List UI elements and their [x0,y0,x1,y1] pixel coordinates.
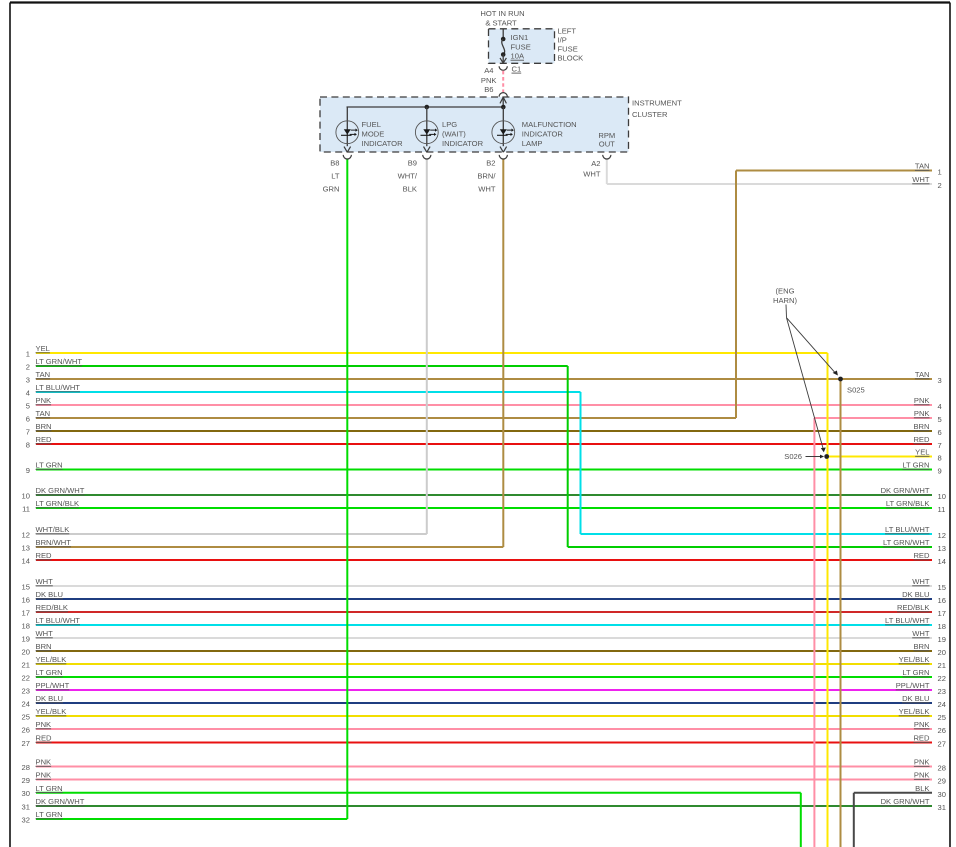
svg-text:FUSE: FUSE [511,42,531,51]
svg-text:30: 30 [938,790,946,799]
svg-text:9: 9 [938,467,942,476]
svg-text:(ENG: (ENG [776,286,795,295]
svg-text:S026: S026 [784,452,802,461]
svg-text:YEL/BLK: YEL/BLK [899,655,930,664]
svg-text:PNK: PNK [914,771,930,780]
svg-text:26: 26 [22,725,30,734]
svg-text:3: 3 [938,376,942,385]
svg-text:LT BLU/WHT: LT BLU/WHT [36,383,81,392]
svg-text:28: 28 [938,764,946,773]
svg-text:10: 10 [938,492,946,501]
svg-text:YEL/BLK: YEL/BLK [36,655,67,664]
svg-text:13: 13 [22,543,30,552]
svg-text:10A: 10A [511,52,525,61]
svg-text:RED: RED [36,435,53,444]
svg-text:LT GRN/WHT: LT GRN/WHT [36,357,83,366]
svg-text:DK BLU: DK BLU [36,590,63,599]
svg-text:RED: RED [913,435,930,444]
svg-text:21: 21 [22,660,30,669]
svg-text:20: 20 [938,648,946,657]
svg-text:BRN: BRN [36,642,52,651]
svg-text:5: 5 [938,415,942,424]
svg-text:19: 19 [22,634,30,643]
svg-text:32: 32 [22,815,30,824]
svg-text:12: 12 [938,531,946,540]
svg-text:LT GRN: LT GRN [902,461,929,470]
svg-text:INDICATOR: INDICATOR [362,139,404,148]
svg-text:PNK: PNK [36,720,52,729]
svg-text:LT GRN: LT GRN [36,668,63,677]
svg-text:PNK: PNK [36,396,52,405]
svg-text:WHT/BLK: WHT/BLK [36,525,70,534]
svg-text:LT BLU/WHT: LT BLU/WHT [885,525,930,534]
svg-text:CLUSTER: CLUSTER [632,110,668,119]
svg-text:WHT: WHT [36,577,54,586]
svg-text:7: 7 [26,427,30,436]
svg-text:LAMP: LAMP [522,139,543,148]
svg-text:HOT IN RUN: HOT IN RUN [480,9,524,18]
svg-text:& START: & START [485,19,517,28]
svg-text:TAN: TAN [915,370,930,379]
svg-text:RED: RED [913,734,930,743]
svg-text:18: 18 [22,621,30,630]
svg-text:8: 8 [26,440,30,449]
svg-text:BRN: BRN [913,422,929,431]
svg-text:TAN: TAN [915,162,930,171]
svg-text:PPL/WHT: PPL/WHT [896,681,930,690]
svg-text:14: 14 [938,557,946,566]
svg-text:16: 16 [938,596,946,605]
svg-text:B6: B6 [484,85,493,94]
svg-text:27: 27 [938,740,946,749]
svg-text:INSTRUMENT: INSTRUMENT [632,99,682,108]
svg-text:BRN/WHT: BRN/WHT [36,538,72,547]
svg-text:C1: C1 [512,65,522,74]
svg-text:B8: B8 [330,158,339,167]
svg-text:DK GRN/WHT: DK GRN/WHT [881,797,930,806]
svg-text:4: 4 [938,402,942,411]
svg-text:RED/BLK: RED/BLK [897,603,930,612]
svg-text:(WAIT): (WAIT) [442,129,466,138]
svg-text:17: 17 [22,608,30,617]
svg-text:WHT: WHT [478,185,496,194]
svg-text:LEFT: LEFT [558,27,577,36]
svg-text:21: 21 [938,661,946,670]
svg-text:25: 25 [938,713,946,722]
svg-text:YEL/BLK: YEL/BLK [899,707,930,716]
svg-text:19: 19 [938,635,946,644]
svg-text:11: 11 [22,504,30,513]
svg-text:22: 22 [22,673,30,682]
svg-text:BLK: BLK [915,784,929,793]
svg-text:29: 29 [938,777,946,786]
svg-text:INDICATOR: INDICATOR [522,129,564,138]
svg-text:25: 25 [22,712,30,721]
svg-text:28: 28 [22,763,30,772]
svg-text:20: 20 [22,647,30,656]
svg-text:A4: A4 [484,66,493,75]
svg-text:LT GRN: LT GRN [902,668,929,677]
svg-text:12: 12 [22,530,30,539]
svg-text:BLK: BLK [403,185,417,194]
svg-text:7: 7 [938,441,942,450]
svg-text:PPL/WHT: PPL/WHT [36,681,70,690]
svg-text:2: 2 [938,181,942,190]
svg-text:LT: LT [331,172,340,181]
svg-text:24: 24 [938,700,946,709]
svg-text:LT BLU/WHT: LT BLU/WHT [36,616,81,625]
svg-text:11: 11 [938,505,946,514]
svg-text:DK BLU: DK BLU [902,694,929,703]
svg-text:PNK: PNK [36,758,52,767]
svg-text:YEL: YEL [915,448,929,457]
svg-text:BLOCK: BLOCK [558,54,584,63]
svg-text:8: 8 [938,454,942,463]
svg-text:26: 26 [938,726,946,735]
svg-text:6: 6 [26,414,30,423]
svg-text:14: 14 [22,556,30,565]
svg-text:BRN/: BRN/ [477,172,496,181]
svg-text:PNK: PNK [914,396,930,405]
svg-text:RED/BLK: RED/BLK [36,603,69,612]
svg-text:17: 17 [938,609,946,618]
svg-text:23: 23 [938,687,946,696]
svg-text:DK GRN/WHT: DK GRN/WHT [36,797,85,806]
svg-text:PNK: PNK [914,758,930,767]
svg-text:LT GRN/BLK: LT GRN/BLK [886,499,930,508]
svg-text:BRN: BRN [913,642,929,651]
svg-text:15: 15 [938,583,946,592]
svg-text:3: 3 [26,375,30,384]
svg-text:DK GRN/WHT: DK GRN/WHT [881,486,930,495]
svg-text:5: 5 [26,401,30,410]
svg-text:15: 15 [22,582,30,591]
svg-text:GRN: GRN [323,185,340,194]
svg-text:1: 1 [26,349,30,358]
svg-text:B9: B9 [408,158,417,167]
svg-text:B2: B2 [486,158,495,167]
svg-text:1: 1 [938,168,942,177]
svg-text:RED: RED [36,551,53,560]
svg-text:10: 10 [22,491,30,500]
svg-text:HARN): HARN) [773,296,798,305]
svg-text:RED: RED [36,734,53,743]
svg-text:29: 29 [22,776,30,785]
svg-text:LPG: LPG [442,120,457,129]
svg-text:WHT: WHT [912,577,930,586]
svg-text:DK GRN/WHT: DK GRN/WHT [36,486,85,495]
svg-text:13: 13 [938,544,946,553]
svg-text:PNK: PNK [914,409,930,418]
svg-text:YEL: YEL [36,344,50,353]
svg-text:RED: RED [913,551,930,560]
svg-text:LT GRN/WHT: LT GRN/WHT [883,538,930,547]
svg-text:22: 22 [938,674,946,683]
svg-text:WHT: WHT [36,629,54,638]
svg-text:16: 16 [22,595,30,604]
svg-text:INDICATOR: INDICATOR [442,139,484,148]
svg-text:A2: A2 [591,159,600,168]
svg-text:FUEL: FUEL [362,120,381,129]
svg-text:PNK: PNK [36,771,52,780]
svg-text:PNK: PNK [914,720,930,729]
svg-text:PNK: PNK [481,76,497,85]
svg-text:MALFUNCTION: MALFUNCTION [522,120,577,129]
svg-text:BRN: BRN [36,422,52,431]
svg-text:4: 4 [26,388,30,397]
svg-text:6: 6 [938,428,942,437]
svg-text:9: 9 [26,466,30,475]
svg-text:OUT: OUT [599,139,615,148]
svg-text:30: 30 [22,789,30,798]
svg-text:IGN1: IGN1 [511,33,529,42]
svg-text:31: 31 [22,802,30,811]
svg-text:2: 2 [26,362,30,371]
svg-text:18: 18 [938,622,946,631]
svg-text:TAN: TAN [36,370,51,379]
svg-text:MODE: MODE [362,129,385,138]
svg-text:S025: S025 [847,386,865,395]
svg-text:LT GRN: LT GRN [36,810,63,819]
svg-text:LT GRN: LT GRN [36,461,63,470]
svg-text:FUSE: FUSE [558,45,578,54]
svg-text:WHT: WHT [912,629,930,638]
svg-text:LT BLU/WHT: LT BLU/WHT [885,616,930,625]
svg-text:LT GRN/BLK: LT GRN/BLK [36,499,80,508]
svg-text:TAN: TAN [36,409,51,418]
svg-text:LT GRN: LT GRN [36,784,63,793]
svg-text:I/P: I/P [558,36,567,45]
svg-text:DK BLU: DK BLU [36,694,63,703]
svg-text:YEL/BLK: YEL/BLK [36,707,67,716]
svg-text:23: 23 [22,686,30,695]
svg-text:WHT/: WHT/ [398,172,418,181]
svg-text:27: 27 [22,739,30,748]
svg-text:31: 31 [938,803,946,812]
svg-text:24: 24 [22,699,30,708]
svg-text:DK BLU: DK BLU [902,590,929,599]
svg-text:WHT: WHT [583,169,601,178]
svg-text:WHT: WHT [912,175,930,184]
